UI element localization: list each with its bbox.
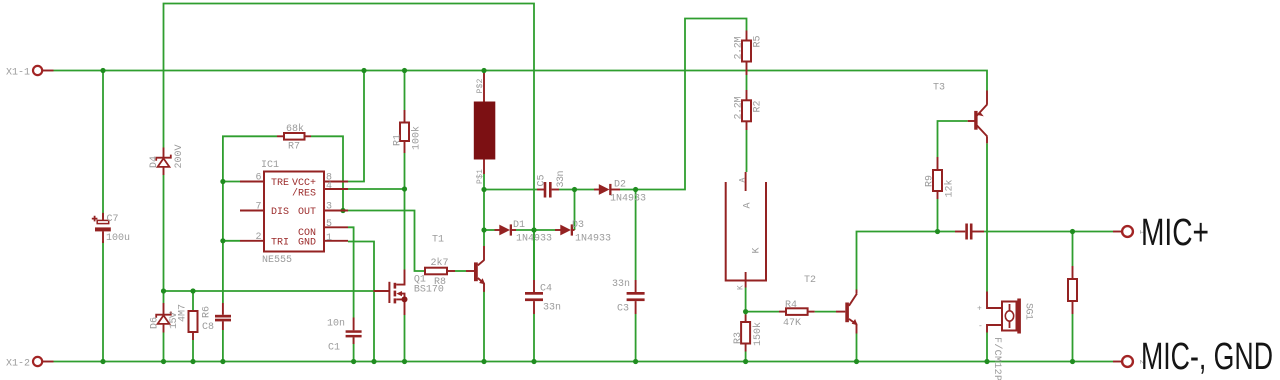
wire R5 bottom to R2 top: [746, 75, 748, 90]
svg-text:/RES: /RES: [292, 188, 316, 200]
wire output row cap to MIC+ pin: [984, 231, 1113, 233]
svg-text:D1: D1: [513, 220, 525, 231]
wire R7 right to OUT: [311, 136, 343, 210]
svg-text:D3: D3: [572, 220, 584, 231]
svg-text:D4: D4: [149, 156, 160, 168]
diode D4 zener 200V: [149, 145, 185, 176]
wire D6 anode to ground: [163, 333, 165, 362]
wire R3-R4 node to R4: [746, 311, 779, 313]
wire gate row: [164, 290, 374, 292]
svg-text:F/CM12P: F/CM12P: [991, 337, 1003, 380]
svg-text:T2: T2: [804, 275, 816, 286]
svg-text:2.2M: 2.2M: [734, 97, 745, 120]
svg-text:C4: C4: [540, 284, 552, 295]
wire R3 top stub: [745, 312, 747, 315]
svg-text:C1: C1: [328, 343, 340, 354]
wire node P1-C5-D1 vertical: [483, 190, 485, 231]
wire C1 to ground: [353, 337, 355, 361]
wire OUT to R8: [343, 211, 425, 272]
wire R1 bottom to Q1 drain: [404, 153, 406, 270]
IC1 pin 1 GND: [324, 233, 348, 244]
capacitor C7 100u polarized: [92, 213, 130, 244]
wire R4 to T2 base: [815, 311, 836, 313]
svg-text:K: K: [752, 247, 763, 253]
resistor R7 68k: [277, 123, 311, 153]
resistor R6 4M7: [178, 304, 213, 340]
resistor R5 2.2M: [734, 31, 764, 76]
resistor R4 47K: [779, 300, 815, 329]
IC1 pin 4 /RES: [324, 181, 348, 192]
svg-text:R4: R4: [785, 300, 797, 311]
wire timing node vertical R7-left pin6 pin2 C8: [223, 136, 277, 303]
op-amp timer IC1 NE555 box: [261, 160, 324, 266]
svg-text:5: 5: [326, 219, 332, 230]
wire C8 to ground: [222, 330, 224, 362]
svg-text:33n: 33n: [612, 279, 630, 290]
wire load resistor top branch: [1072, 232, 1074, 267]
diode D6 zener 15V: [150, 303, 181, 333]
connector pin MIC+: [1113, 226, 1146, 237]
wire T2 emitter to ground: [856, 334, 858, 362]
wire T1 emitter to ground: [483, 291, 485, 362]
svg-text:100k: 100k: [411, 126, 423, 150]
svg-text:150k: 150k: [752, 322, 764, 346]
diode D1 1N4933: [495, 220, 553, 245]
wire R9 bottom to output row: [937, 199, 939, 232]
wire C3 bottom to ground: [635, 314, 637, 362]
svg-text:10n: 10n: [327, 319, 345, 330]
svg-text:68k: 68k: [286, 123, 304, 135]
svg-text:T1: T1: [432, 235, 444, 246]
transistor T2 NPN: [804, 275, 858, 334]
svg-text:R6: R6: [202, 306, 213, 318]
capacitor C5 33n: [537, 171, 568, 198]
svg-text:IC1: IC1: [261, 160, 279, 171]
resistor R8 2k7: [425, 257, 455, 288]
svg-text:7: 7: [255, 202, 261, 213]
svg-text:P$1: P$1: [476, 169, 485, 184]
IC1 pin 6 TRE: [240, 173, 264, 184]
wire T2 collector to output row: [857, 232, 956, 290]
wire D3 cathode up to C5-D2 node: [559, 190, 575, 231]
wire pin6 stub: [223, 181, 240, 183]
capacitor C4 33n: [525, 280, 561, 314]
resistor load right: [1068, 266, 1077, 314]
svg-text:MIC+: MIC+: [1141, 212, 1209, 254]
wire pin2 stub: [223, 240, 240, 242]
svg-text:X1-1: X1-1: [6, 68, 30, 79]
svg-text:R5: R5: [753, 36, 764, 48]
IC1 pin 3 OUT: [324, 202, 348, 213]
node junction dots middle: [161, 179, 1075, 314]
wire VCC branch to pin8: [348, 71, 364, 182]
svg-text:MIC-, GND: MIC-, GND: [1141, 336, 1273, 378]
svg-text:33n: 33n: [556, 171, 567, 188]
svg-text:C5: C5: [537, 175, 548, 187]
svg-text:R9: R9: [925, 175, 936, 187]
svg-text:D6: D6: [150, 317, 161, 329]
svg-text:GND: GND: [298, 238, 316, 249]
wire R1 top branch: [404, 71, 406, 111]
wire R6 top stub: [192, 291, 194, 312]
IC1 pin 5 CON: [324, 219, 348, 230]
svg-text:NE555: NE555: [262, 255, 292, 266]
resistor R3 150k: [733, 315, 764, 352]
wire T3 collector down to buzzer: [986, 143, 988, 291]
connector pin X1-2: [6, 357, 54, 370]
svg-text:+: +: [977, 305, 982, 314]
buzzer SG1 F/CM12P: [977, 292, 1034, 380]
wire HV top loop: [164, 4, 535, 281]
diode D3 1N4933: [555, 220, 611, 245]
transistor Q1 BS170 mosfet: [373, 270, 444, 316]
potentiometer P1 element: [474, 73, 496, 184]
svg-text:A: A: [743, 202, 754, 208]
resistor R1 100k: [393, 110, 423, 153]
svg-text:K: K: [737, 285, 746, 290]
wire C7 to ground: [102, 241, 104, 362]
node junction dots ground rail: [100, 359, 1075, 364]
svg-text:D2: D2: [614, 180, 626, 191]
connector pin MIC- GND: [1113, 356, 1146, 367]
svg-text:T3: T3: [933, 83, 945, 94]
transistor T3 PNP: [933, 83, 987, 144]
wire T1 collector stub: [483, 230, 485, 246]
node junction dots top rail: [100, 68, 486, 73]
svg-text:1N4933: 1N4933: [516, 234, 552, 245]
svg-text:4: 4: [326, 181, 332, 192]
svg-text:R1: R1: [393, 134, 404, 146]
svg-text:33n: 33n: [543, 303, 561, 314]
transistor T1 NPN: [432, 235, 485, 292]
svg-text:TRI: TRI: [271, 238, 289, 249]
wire P1 wiper node to C5: [483, 174, 485, 190]
wire main top rail net: [54, 71, 988, 91]
wire R8 to T1 base: [455, 270, 466, 272]
svg-text:-: -: [978, 322, 983, 331]
svg-text:A: A: [739, 178, 748, 183]
capacitor C1 10n: [327, 318, 362, 354]
svg-text:3: 3: [326, 202, 332, 213]
wire C5 left stub: [484, 189, 537, 191]
svg-text:OUT: OUT: [298, 207, 316, 218]
wire pin4 /RES to R1 bottom: [348, 188, 405, 190]
wire D4 anode to node row: [163, 175, 165, 291]
svg-text:47K: 47K: [783, 318, 801, 329]
wire T3 base to R9: [938, 121, 968, 157]
svg-text:C7: C7: [107, 214, 119, 225]
wire D2 anode stub: [575, 189, 595, 191]
svg-text:TRE: TRE: [271, 178, 289, 189]
svg-text:SG1: SG1: [1023, 303, 1034, 320]
IC1 pin 2 TRI: [240, 232, 264, 243]
svg-text:DIS: DIS: [271, 207, 289, 218]
wire R6 bottom to ground: [192, 340, 194, 362]
svg-text:100u: 100u: [106, 233, 130, 244]
capacitor C8: [202, 303, 231, 333]
svg-text:4M7: 4M7: [178, 304, 189, 322]
svg-text:R3: R3: [733, 332, 744, 344]
wire Q1 source to ground: [404, 315, 406, 362]
svg-text:C8: C8: [202, 322, 214, 333]
svg-text:2k7: 2k7: [431, 257, 449, 269]
wire R3 bottom to ground: [745, 352, 747, 362]
svg-text:R2: R2: [753, 101, 764, 113]
wire bottom ground rail: [54, 361, 1114, 363]
connector pin X1-1: [6, 66, 54, 79]
resistor R2 2.2M: [734, 90, 764, 130]
capacitor output coupling: [955, 224, 984, 240]
svg-text:200V: 200V: [174, 145, 185, 169]
svg-text:2.2M: 2.2M: [734, 37, 745, 60]
wire pin5 CON to C1: [348, 227, 354, 317]
svg-text:6: 6: [255, 173, 261, 184]
diode D2 1N4933: [594, 180, 646, 205]
svg-text:VCC+: VCC+: [292, 178, 316, 189]
wire D2 cathode to C3 and R5 riser: [620, 19, 747, 190]
wire D1 cathode to D3 anode: [516, 229, 555, 231]
wire R2 bottom to tube anode: [746, 130, 748, 172]
wire tube cathode to R3-R4 node: [745, 288, 747, 312]
tube element anode-cathode: [726, 172, 766, 290]
svg-text:P$2: P$2: [476, 78, 485, 93]
wire load resistor bottom to ground: [1072, 314, 1074, 362]
svg-text:1N4933: 1N4933: [610, 194, 646, 205]
capacitor C3 33n: [612, 279, 645, 315]
wire pin1 GND to ground rail: [348, 242, 374, 362]
svg-text:X1-2: X1-2: [6, 359, 30, 370]
wire C3 top branch: [635, 190, 637, 281]
wire D1 anode stub: [484, 229, 495, 231]
svg-text:R7: R7: [288, 142, 300, 153]
svg-text:1N4933: 1N4933: [575, 234, 611, 245]
wire D6 cathode: [163, 291, 165, 303]
wire C4 bottom to ground: [533, 314, 535, 362]
IC1 pin 7 DIS: [240, 202, 264, 213]
wire buzzer minus to ground: [986, 333, 988, 362]
svg-text:C3: C3: [617, 304, 629, 315]
svg-text:R8: R8: [434, 277, 446, 288]
IC1 pin 8 VCC+: [324, 173, 348, 184]
svg-text:2: 2: [255, 232, 261, 243]
wire C4 top branch: [533, 230, 535, 280]
resistor R9 12k: [925, 157, 956, 199]
svg-text:1: 1: [326, 233, 332, 244]
wire C7 branch: [102, 71, 104, 218]
svg-text:12k: 12k: [944, 180, 956, 198]
